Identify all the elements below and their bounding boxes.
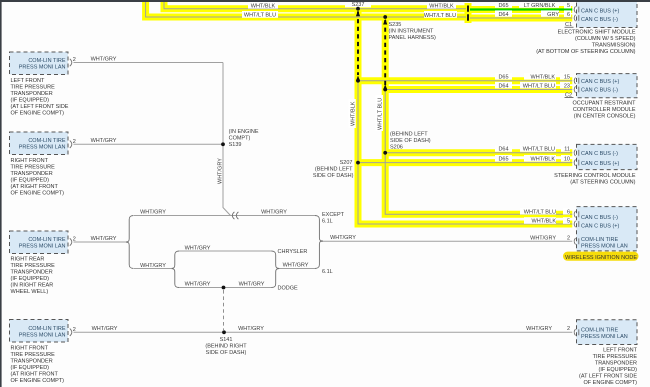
svg-text:TRANSPONDER: TRANSPONDER: [11, 270, 53, 276]
wire core: occupant pin 23: [385, 89, 572, 91]
svg-text:COM-LIN TIRE: COM-LIN TIRE: [28, 58, 66, 64]
svg-text:WHT/GRY: WHT/GRY: [238, 326, 264, 332]
svg-text:WHT/GRY: WHT/GRY: [185, 281, 211, 287]
junction S235: [383, 15, 387, 19]
svg-text:CAN C BUS (-): CAN C BUS (-): [581, 88, 618, 94]
left transponder box 4: [10, 320, 69, 343]
svg-text:(IF EQUIPPED): (IF EQUIPPED): [598, 367, 637, 373]
junction S141: [222, 330, 226, 334]
svg-text:(AT RIGHT FRONT: (AT RIGHT FRONT: [11, 184, 59, 190]
wire chrysler branch: [179, 250, 272, 252]
svg-text:RIGHT FRONT: RIGHT FRONT: [11, 346, 49, 352]
module box U4 wireless ignition node: [577, 207, 638, 251]
svg-text:2: 2: [73, 237, 76, 243]
svg-text:(COLUMN W/ 5 SPEED): (COLUMN W/ 5 SPEED): [575, 36, 636, 42]
svg-text:TRANSPONDER: TRANSPONDER: [11, 359, 53, 365]
left transponder box 3: [10, 231, 69, 254]
left transponder box 2: [10, 132, 69, 155]
wire merged to wireless ignition node: [322, 240, 573, 242]
wire dodge branch: [179, 287, 272, 289]
junction S237: [356, 7, 360, 11]
svg-text:6: 6: [567, 209, 570, 215]
dashed wire dodge junction to S141: [223, 290, 225, 330]
svg-text:(AT RIGHT FRONT: (AT RIGHT FRONT: [11, 372, 59, 378]
highlight band: connector C1 vertical: [465, 3, 472, 23]
crossover hop symbol: [232, 212, 238, 219]
svg-text:TIRE PRESSURE: TIRE PRESSURE: [593, 354, 638, 360]
svg-text:WHT/LT BLU: WHT/LT BLU: [244, 13, 276, 19]
svg-text:WHT/GRY: WHT/GRY: [140, 263, 166, 269]
svg-text:COM-LIN TIRE: COM-LIN TIRE: [28, 237, 66, 243]
svg-text:SIDE OF DASH): SIDE OF DASH): [390, 138, 431, 144]
svg-text:WHEEL WELL): WHEEL WELL): [11, 289, 49, 295]
svg-text:(IF EQUIPPED): (IF EQUIPPED): [11, 98, 50, 104]
pin connector box3: [70, 238, 72, 245]
wire core green: LT GRN/BLK segment to pin 5: [470, 8, 572, 10]
svg-text:OF ENGINE COMPT): OF ENGINE COMPT): [11, 378, 65, 384]
svg-text:23: 23: [564, 83, 570, 89]
svg-text:(BEHIND RIGHT: (BEHIND RIGHT: [205, 344, 247, 350]
svg-text:RIGHT REAR: RIGHT REAR: [11, 257, 45, 263]
svg-text:LT GRN/BLK: LT GRN/BLK: [524, 3, 556, 9]
wire core: GRY segment to pin 6: [470, 17, 572, 19]
module box U3 steering control: [577, 144, 638, 169]
svg-text:TIRE PRESSURE: TIRE PRESSURE: [11, 165, 56, 171]
svg-text:WHT/LT BLU: WHT/LT BLU: [524, 209, 556, 215]
svg-text:OCCUPANT RESTRAINT: OCCUPANT RESTRAINT: [572, 101, 636, 107]
wire vertical from box1 down through S139 with diagonal into branch: [223, 63, 231, 216]
svg-text:11: 11: [564, 147, 570, 153]
svg-text:15: 15: [564, 75, 570, 81]
wire branch top: B1 to B4: [134, 215, 315, 217]
svg-text:OF ENGINE COMPT): OF ENGINE COMPT): [11, 111, 65, 117]
svg-text:CAN C BUS (-): CAN C BUS (-): [581, 151, 618, 157]
pin bracket U5 COM-LIN: [574, 329, 579, 335]
svg-text:COM-LIN TIRE: COM-LIN TIRE: [581, 237, 619, 243]
svg-text:2: 2: [567, 326, 570, 332]
junction dodge splice: [222, 286, 226, 290]
svg-text:PRESS MONI LAN: PRESS MONI LAN: [19, 65, 66, 71]
svg-text:D65: D65: [498, 3, 508, 9]
svg-text:(IF EQUIPPED): (IF EQUIPPED): [11, 276, 50, 282]
svg-text:PANEL HARNESS): PANEL HARNESS): [389, 35, 437, 41]
wire B3 to B4: [278, 268, 316, 270]
harness arrow below S235: [383, 19, 387, 25]
svg-text:LEFT FRONT: LEFT FRONT: [11, 78, 45, 84]
pin bracket U4 CAN C BUS (+): [574, 221, 579, 227]
dashed harness segment below S235: [384, 20, 386, 85]
svg-text:PRESS MONI LAN: PRESS MONI LAN: [581, 244, 628, 250]
wire core: occupant pin 15: [358, 80, 572, 82]
svg-text:TRANSMISSION): TRANSMISSION): [592, 43, 636, 49]
pin bracket U2 CAN C BUS (+): [574, 78, 579, 84]
pin connector box4: [70, 329, 72, 336]
highlight band: wire to occupant pin 15: [358, 77, 572, 84]
svg-text:6.1L: 6.1L: [322, 269, 333, 275]
svg-text:COM-LIN TIRE: COM-LIN TIRE: [28, 326, 66, 332]
svg-text:WHT/GRY: WHT/GRY: [92, 326, 118, 332]
svg-text:WHT/BLK: WHT/BLK: [429, 3, 454, 9]
highlight band: vertical WHT/LT BLU run: [385, 14, 572, 215]
svg-text:WHT/LT BLU: WHT/LT BLU: [523, 147, 555, 153]
border top: [0, 0, 650, 2]
svg-text:WHT/LT BLU: WHT/LT BLU: [378, 98, 384, 130]
highlight band: wire S206 to steering pin 11: [385, 149, 572, 156]
junction S207: [356, 161, 360, 165]
svg-text:(IN RIGHT REAR: (IN RIGHT REAR: [11, 283, 54, 289]
svg-text:TRANSPONDER: TRANSPONDER: [11, 91, 53, 97]
svg-text:WHT/GRY: WHT/GRY: [239, 281, 265, 287]
svg-text:COM-LIN TIRE: COM-LIN TIRE: [581, 327, 619, 333]
svg-text:TRANSPONDER: TRANSPONDER: [595, 361, 637, 367]
svg-text:WHT/GRY: WHT/GRY: [185, 245, 211, 251]
wire core: steering pin 11 from S206: [385, 152, 572, 154]
svg-text:WHT/GRY: WHT/GRY: [330, 235, 356, 241]
brace B4: [315, 216, 323, 269]
svg-text:TIRE PRESSURE: TIRE PRESSURE: [11, 85, 56, 91]
harness arrow above junction left: [356, 76, 360, 82]
highlight band: top WHT/LT BLU wire + left up-corner: [146, 0, 466, 17]
svg-text:2: 2: [567, 236, 570, 242]
svg-text:CAN C BUS (-): CAN C BUS (-): [581, 17, 618, 23]
svg-text:CAN C BUS (+): CAN C BUS (+): [581, 79, 620, 85]
svg-text:CHRYSLER: CHRYSLER: [278, 249, 308, 255]
svg-text:(AT STEERING COLUMN): (AT STEERING COLUMN): [570, 180, 635, 186]
svg-text:(AT BOTTOM OF STEERING COLUMN): (AT BOTTOM OF STEERING COLUMN): [536, 49, 635, 55]
pin bracket U4 CAN C BUS (-): [574, 211, 579, 217]
svg-text:TIRE PRESSURE: TIRE PRESSURE: [11, 263, 56, 269]
svg-text:WHT/GRY: WHT/GRY: [140, 209, 166, 215]
svg-text:S206: S206: [390, 145, 403, 151]
brace B3: [272, 251, 280, 288]
svg-text:WHT/GRY: WHT/GRY: [91, 56, 117, 62]
svg-text:(IN CENTER CONSOLE): (IN CENTER CONSOLE): [574, 114, 636, 120]
svg-text:WHT/BLK: WHT/BLK: [531, 157, 556, 163]
junction S206: [383, 151, 387, 155]
svg-text:(IF EQUIPPED): (IF EQUIPPED): [11, 365, 50, 371]
svg-text:PRESS MONI LAN: PRESS MONI LAN: [581, 334, 628, 340]
svg-text:2: 2: [73, 327, 76, 333]
wire box3 to brace B1: [74, 241, 126, 243]
svg-text:PRESS MONI LAN: PRESS MONI LAN: [19, 244, 66, 250]
svg-text:6.1L: 6.1L: [322, 218, 333, 224]
svg-text:(IN ENGINE: (IN ENGINE: [229, 129, 259, 135]
pin bracket U3 CAN C BUS (+): [574, 159, 579, 165]
svg-text:WHT/LT BLU: WHT/LT BLU: [523, 83, 555, 89]
svg-text:D64: D64: [498, 12, 508, 18]
wire box2 to S139: [74, 143, 224, 145]
pin bracket U3 CAN C BUS (-): [574, 150, 579, 156]
dashed harness segment below S237: [357, 12, 359, 76]
svg-text:WHT/GRY: WHT/GRY: [530, 236, 556, 242]
connector C1 inline bars: [467, 6, 469, 21]
svg-text:DODGE: DODGE: [278, 286, 299, 292]
svg-text:SIDE OF DASH): SIDE OF DASH): [206, 350, 247, 356]
svg-text:CAN C BUS (+): CAN C BUS (+): [581, 161, 620, 167]
svg-text:COMPT): COMPT): [229, 136, 251, 142]
svg-text:S207: S207: [340, 160, 353, 166]
svg-text:OF ENGINE COMPT): OF ENGINE COMPT): [11, 191, 65, 197]
svg-text:CAN C BUS (-): CAN C BUS (-): [581, 215, 618, 221]
svg-text:S235: S235: [389, 22, 402, 28]
wire box4 to left front transponder (bottom run): [74, 331, 573, 333]
svg-text:LEFT FRONT: LEFT FRONT: [603, 348, 637, 354]
svg-text:S139: S139: [229, 142, 242, 148]
svg-text:CAN C BUS (+): CAN C BUS (+): [581, 8, 620, 14]
highlight band: wire to occupant pin 23: [385, 86, 572, 93]
harness arrow above junction right: [383, 84, 387, 90]
svg-text:RIGHT FRONT: RIGHT FRONT: [11, 158, 49, 164]
pin connector box1: [70, 59, 72, 66]
svg-text:WHT/LT BLU: WHT/LT BLU: [424, 13, 456, 19]
brace B1: [126, 216, 134, 269]
svg-text:SIDE OF DASH): SIDE OF DASH): [313, 173, 354, 179]
svg-text:TRANSPONDER: TRANSPONDER: [11, 171, 53, 177]
svg-text:ELECTRONIC SHIFT MODULE: ELECTRONIC SHIFT MODULE: [558, 30, 636, 36]
pin bracket U1 CAN C BUS (-): [574, 15, 579, 21]
svg-text:WHT/GRY: WHT/GRY: [218, 158, 224, 184]
svg-text:5: 5: [567, 3, 570, 9]
left transponder box 1: [10, 52, 69, 75]
harness arrow below S237: [356, 11, 360, 17]
highlight band: green LT GRN/BLK segment: [468, 6, 572, 13]
svg-text:D65: D65: [498, 157, 508, 163]
svg-text:D65: D65: [498, 75, 508, 81]
wire box1 to vertical: [74, 62, 224, 64]
wire core: steering pin 10 from S207: [358, 162, 572, 164]
svg-text:OF ENGINE COMPT): OF ENGINE COMPT): [584, 380, 638, 386]
svg-text:WHT/GRY: WHT/GRY: [261, 209, 287, 215]
svg-text:(AT LEFT FRONT SIDE: (AT LEFT FRONT SIDE: [11, 104, 69, 110]
svg-text:2: 2: [73, 57, 76, 63]
svg-text:WHT/GRY: WHT/GRY: [526, 326, 552, 332]
pin connector box2: [70, 141, 72, 148]
svg-text:S141: S141: [220, 337, 233, 343]
svg-text:(AT LEFT FRONT SIDE: (AT LEFT FRONT SIDE: [579, 374, 637, 380]
svg-text:GRY: GRY: [547, 12, 559, 18]
svg-text:PRESS MONI LAN: PRESS MONI LAN: [19, 145, 66, 151]
svg-text:STEERING CONTROL MODULE: STEERING CONTROL MODULE: [554, 173, 636, 179]
module box U1 electronic shift: [577, 2, 638, 28]
svg-text:2: 2: [73, 139, 76, 145]
svg-text:CAN C BUS (+): CAN C BUS (+): [581, 223, 620, 229]
svg-text:10: 10: [564, 157, 570, 163]
highlight band: wire S207 to steering pin 10: [358, 159, 572, 166]
svg-text:(IN INSTRUMENT: (IN INSTRUMENT: [389, 29, 435, 35]
svg-text:CONTROLLER MODULE: CONTROLLER MODULE: [573, 107, 636, 113]
highlight band: vertical WHT/BLK run: [358, 6, 572, 225]
svg-text:6: 6: [567, 12, 570, 18]
wire core: WHT/LT BLU vertical + to wireless pin 6: [385, 87, 572, 214]
wire core: WHT/BLK vertical + to wireless pin 5: [358, 78, 572, 224]
wire core: top WHT/BLK: [164, 0, 466, 9]
junction harness end right: [383, 88, 387, 92]
svg-text:WHT/GRY: WHT/GRY: [91, 138, 117, 144]
border left: [0, 0, 2, 387]
wire branch bottom: B1 to B2: [134, 268, 171, 270]
svg-text:(BEHIND LEFT: (BEHIND LEFT: [315, 167, 353, 173]
wire core: top WHT/LT BLU: [146, 0, 466, 17]
pin bracket U2 CAN C BUS (-): [574, 86, 579, 92]
svg-text:(BEHIND LEFT: (BEHIND LEFT: [390, 132, 428, 138]
svg-text:WHT/BLK: WHT/BLK: [351, 101, 357, 126]
svg-text:WHT/BLK: WHT/BLK: [532, 219, 557, 225]
highlight band: top WHT/BLK wire horizontal + left up-corner: [146, 0, 573, 224]
wireless ignition node highlight: [563, 252, 639, 261]
junction harness end left: [356, 79, 360, 83]
svg-text:WHT/GRY: WHT/GRY: [91, 236, 117, 242]
svg-text:WHT/BLK: WHT/BLK: [251, 3, 276, 9]
svg-text:WHT/GRY: WHT/GRY: [283, 263, 309, 269]
svg-text:EXCEPT: EXCEPT: [322, 212, 345, 218]
junction S139: [221, 142, 225, 146]
svg-text:WHT/BLK: WHT/BLK: [531, 75, 556, 81]
svg-text:D64: D64: [498, 83, 508, 89]
brace B2: [171, 251, 179, 288]
svg-text:(IF EQUIPPED): (IF EQUIPPED): [11, 178, 50, 184]
svg-text:TIRE PRESSURE: TIRE PRESSURE: [11, 352, 56, 358]
svg-text:D64: D64: [498, 147, 508, 153]
highlight band: GRY segment: [468, 15, 572, 22]
svg-text:PRESS MONI LAN: PRESS MONI LAN: [19, 333, 66, 339]
module box U5 left front transponder: [577, 320, 638, 345]
svg-text:WIRELESS IGNITION NODE: WIRELESS IGNITION NODE: [565, 255, 637, 261]
pin bracket U4 COM-LIN: [574, 238, 579, 244]
svg-text:COM-LIN TIRE: COM-LIN TIRE: [28, 138, 66, 144]
pin bracket U1 CAN C BUS (+): [574, 6, 579, 12]
module box U2 occupant restraint: [577, 74, 638, 98]
svg-text:5: 5: [567, 219, 570, 225]
